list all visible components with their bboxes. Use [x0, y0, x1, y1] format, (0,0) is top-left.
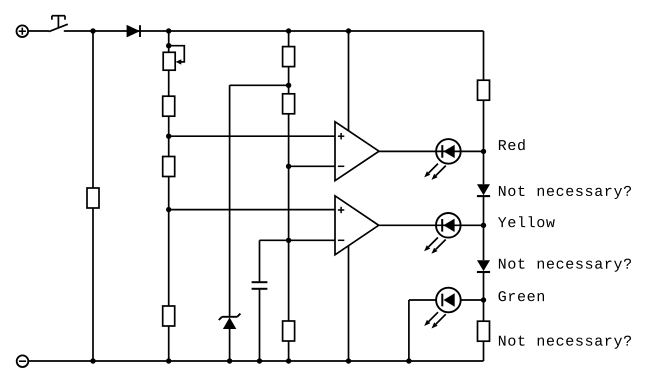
resistor R9 — [478, 321, 490, 341]
wire — [483, 100, 485, 184]
zener diode Z1 — [219, 314, 241, 329]
wire — [259, 240, 261, 282]
wire top rail — [64, 30, 484, 32]
diode D3 — [477, 260, 490, 272]
node label Red — [499, 139, 525, 150]
diode D2 — [477, 184, 490, 196]
plus terminal — [17, 25, 29, 37]
wire — [168, 326, 170, 361]
wire op2 -in — [260, 239, 336, 241]
wire — [168, 31, 170, 52]
op-amp U2 — [335, 196, 379, 255]
label Not necessary? (D2) — [499, 186, 631, 199]
resistor R7 — [283, 321, 295, 341]
node junctions — [90, 28, 486, 363]
minus terminal — [17, 355, 29, 367]
label Not necessary? (D3) — [499, 259, 631, 272]
wire — [168, 116, 170, 156]
wire — [461, 299, 484, 301]
wire — [348, 246, 350, 362]
LED green LED3 — [424, 288, 461, 329]
resistor R1 — [87, 188, 99, 208]
trimmer P1 — [163, 46, 184, 70]
LED yellow LED2 — [424, 213, 461, 254]
node label Yellow — [498, 216, 555, 227]
wire — [92, 208, 94, 361]
wire op1 +in — [169, 135, 335, 137]
resistor R3 — [163, 157, 175, 177]
wire — [168, 70, 170, 96]
wire — [288, 341, 290, 361]
wire — [29, 30, 49, 32]
resistor R6 — [283, 94, 295, 114]
wire — [259, 289, 261, 361]
wire — [408, 300, 410, 361]
switch S1 — [49, 16, 68, 32]
wire op1 out — [379, 150, 484, 152]
capacitor C1 — [252, 282, 268, 289]
wire bottom rail — [29, 360, 484, 362]
LED red LED1 — [424, 139, 461, 180]
resistor R2 — [163, 96, 175, 116]
wire — [92, 31, 94, 188]
label Not necessary? (R9) — [499, 336, 631, 349]
wire op1 -in — [289, 165, 335, 167]
node label Green — [499, 291, 545, 301]
wire op2 +in — [169, 209, 335, 211]
wire — [483, 31, 485, 80]
resistor R4 — [163, 306, 175, 326]
wire — [483, 196, 485, 260]
resistor R8 — [478, 80, 490, 100]
wire op2 out — [379, 224, 484, 226]
wire — [288, 114, 290, 321]
wire — [409, 299, 436, 301]
wire — [168, 177, 170, 307]
resistor R5 — [283, 47, 295, 67]
wire — [288, 31, 290, 47]
wire — [229, 329, 231, 361]
wire — [483, 341, 485, 361]
wire — [288, 67, 290, 94]
wire — [483, 272, 485, 321]
op-amp U1 — [335, 122, 379, 181]
wire — [230, 84, 289, 86]
diode D1 — [127, 25, 140, 38]
wire — [348, 31, 350, 131]
wire — [229, 85, 231, 316]
